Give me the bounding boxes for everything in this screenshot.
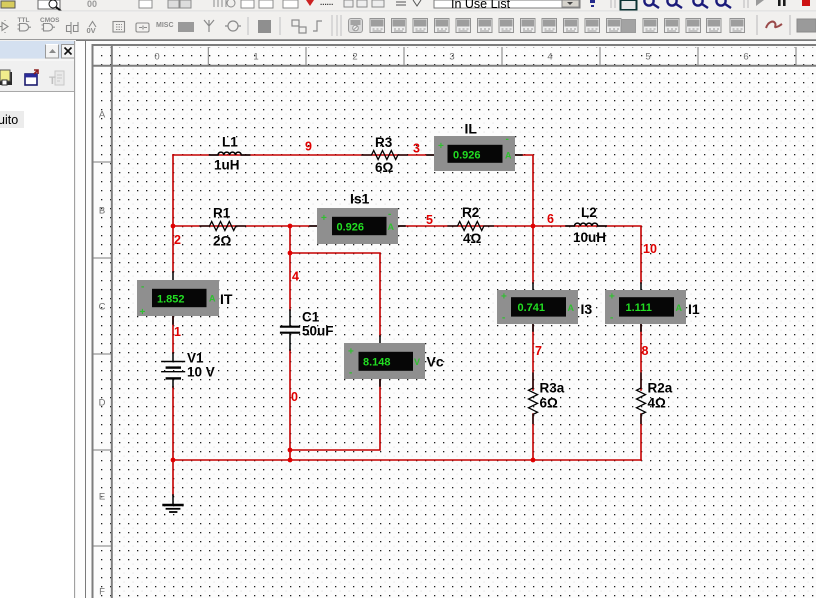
svg-text:L1: L1 [222,135,238,150]
svg-text:B: B [99,206,105,217]
svg-text:6Ω: 6Ω [540,396,559,411]
help ? bottom [590,0,595,3]
ammeter IL [427,134,522,171]
junction node at (290,226) [288,224,293,229]
wire: bottom rail [173,459,641,461]
svg-text:4Ω: 4Ω [463,231,482,246]
wire: IT bottom to battery V1 top [172,316,174,353]
dc source V1 (battery) [162,353,185,387]
panel toolbar icons [0,70,64,87]
svg-text:C1: C1 [302,310,320,325]
svg-text:1.111: 1.111 [626,302,652,314]
wire: top rail from node at x=173 to ammeter IL [173,154,434,156]
svg-text:I1: I1 [688,301,700,317]
svg-text:7: 7 [535,344,542,358]
wire: middle rail R1 row from left branch to Is1 [173,225,317,227]
svg-text:10: 10 [643,242,657,256]
signature icon [766,22,782,28]
resistor R3 [362,151,407,160]
svg-text:4: 4 [292,270,299,284]
svg-text:-: - [502,313,505,324]
svg-text:3: 3 [413,142,420,156]
svg-text:C: C [99,302,106,313]
svg-text:R2: R2 [462,205,479,220]
svg-text:8: 8 [642,344,649,358]
svg-text:+: + [501,292,507,303]
junction node at (173,226) [171,224,176,229]
svg-text:0.926: 0.926 [337,222,365,234]
junction node at (533,460) [531,458,536,463]
svg-text:-: - [349,368,352,379]
svg-text:A: A [99,110,106,121]
zoom magnifiers bottoms [644,0,731,8]
svg-text:In Use List: In Use List [451,0,511,11]
ammeter Is1 [310,208,405,244]
svg-text:0V: 0V [87,26,96,35]
junction node at (290,253) [288,251,293,256]
svg-text:uito: uito [0,113,18,127]
svg-text:-: - [506,134,509,145]
svg-text:T: T [49,75,56,87]
svg-text:6: 6 [547,212,554,226]
panel right border / splitter [74,41,76,598]
resistor R1 [200,222,245,231]
svg-text:+: + [348,347,354,358]
svg-text:R3a: R3a [540,381,565,396]
svg-text:I3: I3 [581,301,593,317]
svg-text:D: D [99,398,106,409]
svg-text:......: ...... [320,0,333,7]
svg-text:00: 00 [87,0,97,9]
svg-text:5: 5 [645,52,650,63]
wire: capacitor branch from node on middle rail down to C1 [289,226,291,310]
wire: I3 bottom through node 7 to R3a [532,324,534,390]
svg-text:Vc: Vc [427,354,444,370]
wire: left vertical branch from top rail to ammeter IT [172,155,174,272]
svg-text:V: V [414,357,420,367]
wire: battery V1 bottom to bottom rail and ground [172,387,174,495]
inductor L1 [210,152,250,155]
inductor L2 [566,223,606,226]
junction node at (290,450) [288,448,293,453]
svg-text:-: - [610,313,613,324]
svg-text:R2a: R2a [648,381,673,396]
wire: R2a bottom to bottom rail corner [640,414,642,460]
wire: Is1 right to R2 to node 6 [398,225,532,227]
svg-text:+: + [438,141,444,152]
svg-text:3: 3 [449,52,454,63]
svg-text:-: - [388,209,391,220]
svg-text:Is1: Is1 [350,191,370,207]
tree item "uito" (clipped "Circuito") [0,111,24,128]
svg-text:MISC: MISC [156,22,174,29]
svg-text:A: A [568,303,575,313]
svg-text:2: 2 [174,233,181,247]
svg-text:1: 1 [174,325,181,339]
wire: voltmeter Vc bottom down and left to capacitor branch [290,379,380,450]
svg-text:1: 1 [253,52,258,63]
svg-text:R1: R1 [213,206,231,221]
svg-text:5: 5 [426,213,433,227]
svg-text:E: E [99,492,105,503]
svg-text:+: + [609,292,615,303]
wire: node 6 to L2 to right corner, down to ammeter I1 [533,226,641,283]
svg-text:4: 4 [547,52,552,63]
junction node at (532,226) [531,224,536,229]
svg-text:A: A [505,151,512,161]
svg-text:4Ω: 4Ω [648,396,667,411]
ground [164,495,183,512]
grapher icon [621,0,637,10]
voltmeter Vc [344,336,425,386]
svg-text:8.148: 8.148 [363,357,391,369]
svg-text:6Ω: 6Ω [375,160,394,175]
ammeter I3 [497,283,578,331]
svg-text:0: 0 [154,52,159,63]
svg-text:2Ω: 2Ω [213,234,232,249]
wire: I1 bottom through node 8 to R2a [640,324,642,390]
junction node at (290,460) [288,458,293,463]
wire: node 4 branch over to voltmeter Vc top [290,253,380,336]
junction node at (173,460) [171,458,176,463]
svg-text:-: - [141,282,144,293]
svg-text:2: 2 [352,52,357,63]
svg-text:F: F [99,587,105,598]
svg-text:A: A [676,303,683,313]
svg-text:6: 6 [743,52,748,63]
svg-text:0: 0 [291,390,298,404]
wire: C1 bottom to bottom rail [289,350,291,460]
svg-text:L2: L2 [581,205,597,220]
svg-text:10 V: 10 V [187,365,215,380]
svg-text:IL: IL [465,121,478,137]
svg-text:50uF: 50uF [302,324,334,339]
svg-text:9: 9 [305,140,312,154]
svg-text:1uH: 1uH [214,158,240,173]
resistor R2a (vertical) [637,373,646,423]
ammeter I1 [605,283,686,331]
svg-text:A: A [388,222,395,232]
In Use List combo [434,0,580,8]
ammeter IT [137,272,219,324]
svg-text:0.741: 0.741 [518,302,546,314]
svg-text:+: + [321,213,327,224]
svg-text:IT: IT [220,291,233,307]
svg-text:1.852: 1.852 [157,294,185,306]
svg-text:10uH: 10uH [573,230,606,245]
svg-text:V1: V1 [187,351,204,366]
svg-text:0.926: 0.926 [453,150,481,162]
resistor R2 [448,222,493,231]
wire: R3a bottom to bottom rail [532,414,534,460]
capacitor C1 [281,310,299,350]
svg-text:A: A [209,294,216,304]
wire: IL right stub then down to node 6 junction [515,155,533,283]
resistor R3a (vertical) [529,373,538,423]
svg-text:R3: R3 [375,135,393,150]
svg-text:+: + [140,307,146,318]
